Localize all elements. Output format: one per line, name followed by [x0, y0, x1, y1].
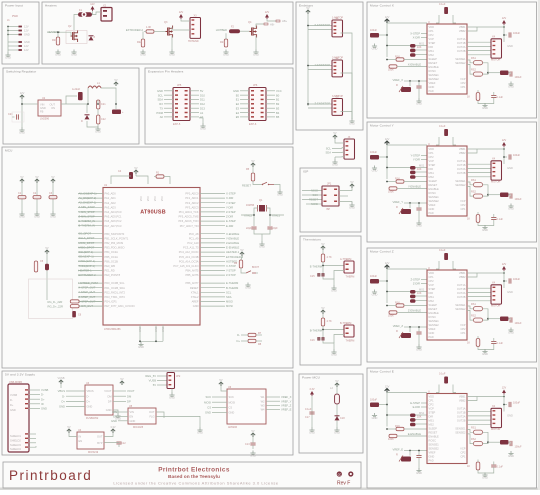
- svg-text:ENABLE: ENABLE: [429, 187, 440, 191]
- svg-text:VDD: VDD: [429, 147, 435, 151]
- wires step dir X: [421, 33, 427, 35]
- svg-text:5V: 5V: [321, 306, 324, 310]
- ground bottom E: [482, 473, 487, 477]
- svg-text:EN: EN: [113, 415, 117, 419]
- wires ms pins X: [387, 45, 410, 47]
- wire mcu left pin 10: [78, 237, 103, 239]
- wire usb pin D+: [25, 398, 28, 399]
- wire usb pin D-: [25, 394, 28, 395]
- svg-text:GND: GND: [205, 411, 211, 415]
- svg-text:IN: IN: [79, 435, 82, 439]
- svg-text:ROSC: ROSC: [429, 315, 437, 319]
- svg-text:100uF: 100uF: [513, 154, 521, 157]
- ground vref Z: [416, 345, 421, 349]
- ground thermistor B-THERM: [331, 350, 336, 354]
- svg-text:RESET: RESET: [242, 184, 251, 188]
- 12V arrow right E: [502, 390, 506, 394]
- svg-text:VBB2: VBB2: [459, 399, 466, 403]
- svg-text:cc: cc: [338, 472, 342, 476]
- ground c20: [19, 128, 24, 132]
- svg-text:12V: 12V: [502, 17, 507, 20]
- 12V arrow left Z: [385, 265, 390, 269]
- svg-text:OUT1A: OUT1A: [457, 283, 466, 287]
- resistor enable pulldown E: [389, 434, 397, 437]
- capacitor C5 vbus dark polarized: [45, 264, 49, 270]
- 5V arrow boot: [240, 252, 244, 256]
- svg-text:0.1uF: 0.1uF: [497, 466, 504, 469]
- svg-text:CP1: CP1: [429, 29, 435, 33]
- svg-text:PF5_ADC5_TMS: PF5_ADC5_TMS: [178, 215, 198, 219]
- connector J3 i2c 4pin: [344, 139, 355, 159]
- connector S1 endstop: [332, 20, 343, 37]
- svg-text:A0: A0: [160, 115, 164, 119]
- mosfet Q3 extruder: [166, 27, 170, 35]
- svg-text:12V: 12V: [385, 385, 390, 389]
- svg-text:HEATER-1: HEATER-1: [79, 268, 93, 272]
- wires pwr_sel: [157, 375, 167, 377]
- svg-text:SCK: SCK: [229, 395, 235, 399]
- svg-text:CP2: CP2: [460, 203, 466, 207]
- svg-text:5V: 5V: [306, 6, 309, 10]
- ground vref Y: [416, 221, 421, 225]
- svg-text:Z-DIR: Z-DIR: [226, 215, 233, 219]
- svg-text:PD0_OC0B_SCL: PD0_OC0B_SCL: [105, 281, 126, 285]
- wire JP5 pin row 4: [164, 103, 173, 105]
- svg-text:PB4_ANT5: PB4_ANT5: [186, 269, 200, 273]
- capacitor C6: [72, 311, 76, 317]
- svg-text:C22: C22: [101, 118, 106, 121]
- svg-text:E4: E4: [236, 111, 240, 115]
- wire vin: [22, 103, 38, 105]
- IC A4982 driver Y: [427, 146, 467, 216]
- 5V arrow bottom cap: [251, 433, 255, 437]
- svg-text:GND: GND: [106, 408, 112, 412]
- svg-text:VUSB: VUSB: [57, 376, 64, 380]
- svg-text:PAD: PAD: [429, 459, 434, 463]
- svg-text:OUT2B: OUT2B: [457, 419, 466, 423]
- svg-text:5V: 5V: [350, 180, 353, 184]
- svg-text:PD1_OC2B_SDA: PD1_OC2B_SDA: [105, 286, 126, 290]
- svg-text:GND: GND: [24, 33, 30, 37]
- resistor enable pulldown Y: [389, 187, 397, 190]
- svg-text:PC5_A13_OC3B: PC5_A13_OC3B: [179, 255, 199, 259]
- svg-text:100K: 100K: [388, 315, 394, 318]
- junction: [7, 26, 9, 28]
- trimpot vref X: [401, 87, 411, 92]
- svg-text:PWM: PWM: [156, 111, 163, 115]
- wire 12v rail Z: [386, 269, 388, 303]
- svg-text:MISO: MISO: [226, 300, 233, 304]
- wire u3 right pin DP: [113, 400, 126, 402]
- wire gate wire extruder: [144, 31, 146, 33]
- svg-text:0.1uF: 0.1uF: [305, 408, 312, 411]
- wire mcu left pin 12: [78, 247, 103, 249]
- svg-text:Y-DIR: Y-DIR: [226, 205, 233, 209]
- ground exp header 1: [199, 118, 203, 124]
- wire vref X: [404, 80, 417, 82]
- svg-text:GND: GND: [429, 207, 435, 211]
- svg-text:16MHZ: 16MHZ: [246, 204, 255, 207]
- svg-text:DIR: DIR: [429, 415, 434, 419]
- wires isp right: [339, 188, 352, 191]
- svg-text:GND: GND: [332, 163, 338, 167]
- svg-text:AD5206: AD5206: [228, 426, 238, 429]
- svg-text:X-ENABLE: X-ENABLE: [408, 63, 422, 67]
- svg-text:Y-ENABLE: Y-ENABLE: [226, 236, 239, 240]
- tantalum cap C23 dark: [112, 110, 121, 115]
- svg-text:OUT2A: OUT2A: [457, 45, 466, 49]
- wire mcu left pin 2: [78, 197, 103, 199]
- reset button S4: [262, 182, 274, 184]
- svg-text:REG_5V: REG_5V: [145, 374, 156, 378]
- svg-text:A0_CS(EXP-1): A0_CS(EXP-1): [79, 191, 97, 195]
- wire vbb right down E: [503, 395, 505, 412]
- svg-text:PA4_AD4,PC0: PA4_AD4,PC0: [105, 210, 123, 214]
- svg-text:GND: GND: [416, 102, 422, 106]
- ground decoupling 2: [34, 212, 39, 216]
- wire usb shield pin 2: [25, 438, 28, 439]
- IC U6 digipot AD5206: [227, 389, 266, 424]
- svg-text:E-THERM: E-THERM: [226, 281, 239, 285]
- svg-text:1K: 1K: [467, 218, 470, 221]
- pin header JP5: [173, 88, 190, 121]
- junction: [7, 30, 9, 32]
- svg-text:STEP: STEP: [429, 41, 436, 45]
- ground bottom X: [482, 103, 487, 107]
- section frame: ISP: [300, 168, 361, 232]
- svg-text:B3: B3: [276, 106, 280, 110]
- svg-text:R: R: [396, 206, 398, 209]
- svg-text:PF7_ADC7_TDI: PF7_ADC7_TDI: [180, 224, 199, 228]
- svg-text:CP1: CP1: [429, 275, 435, 279]
- svg-text:GND: GND: [155, 326, 158, 332]
- svg-text:PE0_PCINT8: PE0_PCINT8: [105, 273, 121, 277]
- wire VBB Z: [467, 272, 504, 274]
- svg-text:5V: 5V: [251, 159, 254, 163]
- svg-text:GND: GND: [19, 131, 25, 135]
- ground bottom Y: [482, 225, 487, 229]
- CC license icon 2: [348, 471, 353, 476]
- capacitor bottom filter Y: [491, 218, 496, 220]
- svg-text:GND: GND: [95, 130, 101, 134]
- svg-text:GND: GND: [55, 53, 61, 57]
- 3.3V arrow reg out: [111, 429, 115, 433]
- wire d2: [66, 96, 77, 104]
- 5V arrow thermistor A-THERM: [321, 246, 325, 250]
- ground 100uF Z: [508, 328, 513, 332]
- svg-text:GND: GND: [507, 44, 513, 48]
- svg-text:5V: 5V: [240, 248, 243, 252]
- svg-text:Motor Control E: Motor Control E: [370, 370, 394, 374]
- svg-text:D: D: [81, 120, 83, 123]
- connector S2 endstop: [332, 60, 343, 77]
- svg-text:RESET: RESET: [429, 307, 438, 311]
- svg-text:Power MCU: Power MCU: [302, 376, 320, 380]
- svg-text:CS: CS: [207, 406, 211, 410]
- svg-text:SDA(EXP-1): SDA(EXP-1): [79, 255, 94, 259]
- 12V arrow left Y: [385, 141, 390, 145]
- svg-text:GND: GND: [309, 431, 315, 435]
- svg-text:GND: GND: [277, 193, 283, 197]
- wires outputs Z: [467, 287, 491, 289]
- wire usb pin GND: [25, 408, 28, 409]
- wires bottom filter gnd Y: [478, 223, 485, 226]
- svg-text:VREF_Y: VREF_Y: [393, 200, 404, 204]
- svg-text:5V: 5V: [67, 425, 70, 429]
- svg-text:PE0_WR: PE0_WR: [105, 264, 116, 268]
- svg-text:XTAL1: XTAL1: [272, 214, 281, 218]
- svg-text:R1K: R1K: [395, 302, 400, 305]
- svg-text:A-22uF: A-22uF: [72, 88, 81, 91]
- svg-text:Z-STEP_OUT: Z-STEP_OUT: [79, 295, 96, 299]
- ground u3: [115, 414, 120, 418]
- wire mcu right pin 22: [200, 296, 225, 298]
- wire mcu left pin 13: [78, 251, 103, 253]
- svg-text:Y-MIN_STOP: Y-MIN_STOP: [79, 210, 95, 214]
- svg-text:EN: EN: [130, 415, 134, 419]
- wire mcu gnd pin 1: [139, 325, 141, 341]
- capacitor C input Z: [370, 279, 379, 284]
- svg-text:SENSE1: SENSE1: [455, 57, 466, 61]
- svg-text:GND: GND: [429, 331, 435, 335]
- svg-text:5V: 5V: [335, 379, 338, 383]
- svg-text:PWR: PWR: [12, 15, 18, 18]
- section frame: Motor Control E: [367, 368, 537, 488]
- section frame: Motor Control Z: [367, 248, 537, 362]
- svg-text:C20: C20: [8, 113, 13, 116]
- svg-text:GND: GND: [140, 53, 146, 57]
- svg-text:VBB1: VBB1: [459, 25, 466, 29]
- 5V arrow decoupling 3: [51, 179, 55, 183]
- wire 12v rail Y: [386, 145, 388, 179]
- svg-text:ID: ID: [41, 402, 44, 406]
- svg-text:CP1: CP1: [460, 85, 466, 89]
- resistor R20 gate pulldown: [56, 37, 59, 45]
- svg-text:R23: R23: [220, 41, 225, 44]
- ground vref X: [416, 99, 421, 103]
- capacitor C input Y: [370, 155, 379, 160]
- wire power input row 1: [8, 26, 22, 28]
- trimpot vref Y: [401, 209, 411, 214]
- svg-text:PF1_ADC1: PF1_ADC1: [185, 196, 199, 200]
- wire mcu right pin 20: [200, 287, 225, 289]
- svg-text:JP6: JP6: [253, 84, 258, 87]
- wire JP6 pin row 3: [240, 99, 249, 101]
- svg-text:GND: GND: [138, 345, 144, 349]
- 5V arrow i2c connector: [333, 135, 337, 139]
- svg-text:12V: 12V: [265, 11, 270, 14]
- capacitor bottom filter E: [491, 465, 496, 467]
- svg-text:E-DIR: E-DIR: [413, 405, 420, 409]
- svg-text:HOTBED_PWM: HOTBED_PWM: [79, 281, 99, 285]
- svg-text:RESET: RESET: [190, 286, 199, 290]
- svg-text:100uF: 100uF: [370, 399, 378, 402]
- resistor R21 gate series: [146, 30, 154, 33]
- svg-text:MS1: MS1: [419, 42, 425, 46]
- ground isp: [349, 203, 354, 207]
- wire mcu left pin 11: [78, 242, 103, 244]
- 12V arrow right Y: [502, 142, 506, 146]
- wire therm conn gnd: [334, 271, 344, 280]
- resistor bottom filter X: [476, 93, 480, 101]
- svg-text:MS1: MS1: [429, 419, 435, 423]
- svg-text:E-THERM_IN: E-THERM_IN: [79, 219, 95, 223]
- svg-text:PB5_OC1A: PB5_OC1A: [105, 255, 119, 259]
- svg-text:GND: GND: [508, 454, 514, 458]
- 5V arrow decoupling 1: [20, 179, 24, 183]
- svg-text:PAD: PAD: [429, 335, 434, 339]
- svg-text:5V: 5V: [219, 378, 222, 382]
- svg-text:100uF: 100uF: [513, 32, 521, 35]
- svg-text:GND: GND: [507, 414, 513, 418]
- ground regulator output: [95, 127, 100, 131]
- wire sense join X: [483, 63, 489, 74]
- wire endstop power rail: [307, 14, 309, 106]
- svg-text:HOTBED: HOTBED: [216, 28, 227, 32]
- svg-text:Y-STEP: Y-STEP: [411, 154, 421, 158]
- ground crystal: [259, 242, 264, 246]
- svg-text:1K: 1K: [467, 465, 470, 468]
- svg-text:GND: GND: [169, 396, 175, 400]
- svg-text:EXTRUDER-2: EXTRUDER-2: [126, 28, 144, 32]
- capacitor 100uF right X: [510, 71, 512, 76]
- svg-text:MS2: MS2: [429, 423, 435, 427]
- wire mcu left pin 14: [78, 256, 103, 258]
- svg-text:Z-STEP: Z-STEP: [226, 210, 236, 214]
- svg-text:B5: B5: [276, 115, 280, 119]
- svg-text:PD4_ICP1: PD4_ICP1: [105, 300, 118, 304]
- svg-text:Printrbot Electronics: Printrbot Electronics: [158, 467, 230, 474]
- svg-text:D+: D+: [10, 403, 14, 407]
- svg-text:ROSC: ROSC: [429, 439, 437, 443]
- wire mcu right pin 11: [200, 242, 225, 244]
- 5V arrow thermistor B-THERM: [321, 310, 325, 314]
- section frame: Heaters: [42, 2, 293, 64]
- svg-text:GND: GND: [169, 53, 175, 57]
- svg-text:RESET: RESET: [429, 183, 438, 187]
- svg-text:R20: R20: [52, 39, 57, 42]
- section frame: 5V and 3.3V Supply: [2, 371, 293, 455]
- sense resistor RS2 Y: [474, 194, 483, 198]
- svg-text:E-DIR: E-DIR: [226, 224, 233, 228]
- svg-text:E2: E2: [236, 102, 240, 106]
- svg-text:5V: 5V: [35, 175, 38, 179]
- resistor R8: [248, 339, 256, 342]
- svg-text:12V: 12V: [385, 261, 390, 265]
- ground endstops: [349, 119, 354, 123]
- svg-text:Y-STEP_OUT: Y-STEP_OUT: [79, 290, 96, 294]
- svg-text:AT90USB: AT90USB: [140, 210, 166, 216]
- wire mcu left pin 21: [78, 291, 103, 293]
- connector A-THERM thermistor 2pin: [344, 261, 354, 273]
- svg-text:B-THERM_IN: B-THERM_IN: [79, 224, 95, 228]
- svg-text:A2_D6(EXP-1): A2_D6(EXP-1): [79, 201, 97, 205]
- connector X2 heater output: [101, 8, 112, 22]
- capacitor C2 decoupling: [33, 196, 41, 199]
- wire mcu right pin 13: [200, 251, 225, 253]
- svg-text:SENSE2: SENSE2: [455, 431, 466, 435]
- svg-text:VBB1: VBB1: [459, 395, 466, 399]
- svg-text:5V and 3.3V Supply: 5V and 3.3V Supply: [5, 373, 35, 377]
- trimpot vref Z: [401, 333, 411, 338]
- svg-text:GND: GND: [111, 419, 117, 423]
- svg-text:W1: W1: [261, 395, 265, 399]
- capacitor C16 filter: [317, 337, 320, 341]
- svg-text:MOTOR: MOTOR: [491, 428, 500, 431]
- svg-text:VREF_Z: VREF_Z: [281, 404, 292, 408]
- svg-text:3.3V: 3.3V: [110, 425, 116, 429]
- flyback diode D3: [89, 36, 94, 40]
- ground decoupling 3: [50, 212, 55, 216]
- svg-text:MOTOR: MOTOR: [491, 305, 500, 308]
- wire u6 pin MOSI: [212, 401, 227, 403]
- svg-text:VREF: VREF: [429, 81, 436, 85]
- svg-text:X-STEP: X-STEP: [226, 192, 236, 196]
- svg-text:FLG: FLG: [149, 415, 154, 419]
- wire sense join E: [483, 432, 489, 443]
- svg-text:5V: 5V: [153, 383, 156, 387]
- section frame: MCU: [2, 147, 293, 368]
- capacitor bottom filter X: [491, 96, 496, 98]
- CC license icon 1: [337, 471, 342, 476]
- svg-text:CP2: CP2: [429, 33, 435, 37]
- resistor R1 aref: [156, 175, 164, 178]
- capacitor right top E: [509, 402, 511, 407]
- wires crystal: [241, 208, 258, 215]
- svg-text:CS: CS: [229, 406, 233, 410]
- svg-text:D+: D+: [61, 400, 65, 404]
- svg-text:VCP: VCP: [460, 447, 466, 451]
- svg-text:GND: GND: [331, 289, 337, 293]
- fuse F1: [78, 12, 92, 17]
- wire branch2: [336, 387, 338, 394]
- svg-text:OUT1A: OUT1A: [457, 37, 466, 41]
- svg-text:B0: B0: [276, 93, 280, 97]
- 3.3V arrow reg in: [67, 429, 71, 433]
- wire mcu left pin 19: [78, 282, 103, 284]
- capacitor C1 decoupling: [18, 196, 26, 199]
- svg-text:VREF_X: VREF_X: [393, 78, 404, 82]
- svg-text:VCP: VCP: [460, 199, 466, 203]
- wire divider node: [322, 262, 324, 274]
- svg-text:X-STEP: X-STEP: [410, 32, 420, 36]
- wire mcu right pin 3: [200, 202, 225, 204]
- svg-text:GND: GND: [482, 106, 488, 110]
- svg-text:GND: GND: [372, 416, 378, 420]
- ISP header JP1 2x3: [322, 186, 339, 206]
- svg-text:THERM: THERM: [346, 340, 355, 343]
- wires step dir Y: [421, 155, 427, 157]
- svg-text:OUT2B: OUT2B: [457, 295, 466, 299]
- svg-text:PAD: PAD: [429, 211, 434, 215]
- svg-text:PB0_SS/PCINT0: PB0_SS/PCINT0: [105, 232, 125, 236]
- wire u3 left pin D-: [66, 395, 85, 397]
- svg-text:GND: GND: [429, 85, 435, 89]
- svg-text:Power Input: Power Input: [5, 4, 23, 8]
- resistor R2 usb series: [70, 300, 79, 303]
- svg-text:DIR: DIR: [429, 291, 434, 295]
- svg-text:D+: D+: [41, 397, 45, 401]
- wire mcu gnd pin 3: [162, 325, 164, 341]
- IC U4 MIC5219 3.3V regulator: [77, 432, 104, 449]
- wire mcu left pin 22: [78, 296, 103, 298]
- svg-text:OUT: OUT: [149, 410, 155, 414]
- svg-text:GND: GND: [19, 215, 25, 219]
- wire vref VREF_Z: [266, 404, 280, 406]
- usb series resistors to ic: [79, 300, 103, 302]
- 5V arrow digipot: [219, 382, 223, 386]
- wire JP5 pin row 2: [164, 94, 173, 96]
